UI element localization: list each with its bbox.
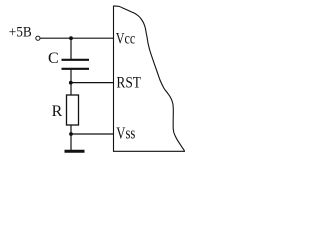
- terminal circle (+5B input): [36, 36, 40, 40]
- wire resistor bottom to ground: [70, 125, 72, 151]
- node junction on RST line: [69, 81, 73, 85]
- ground symbol: [65, 150, 85, 153]
- svg-text:+5B: +5B: [9, 25, 32, 41]
- svg-text:Vcc: Vcc: [116, 30, 136, 47]
- capacitor C bottom plate: [62, 68, 90, 70]
- node junction at top of capacitor branch: [69, 36, 73, 40]
- wire capacitor to RST junction and resistor: [70, 69, 72, 95]
- svg-text:C: C: [48, 50, 59, 67]
- capacitor C top plate: [62, 59, 90, 61]
- wire junction to Vss pin: [71, 133, 114, 135]
- wire junction to RST pin: [71, 82, 114, 84]
- IC U1 outline (torn-edge body): [114, 6, 185, 151]
- svg-text:Vss: Vss: [116, 124, 135, 143]
- resistor R body: [67, 95, 79, 125]
- wire +5B to Vcc pin: [40, 37, 113, 39]
- node junction on Vss line: [69, 132, 73, 136]
- svg-text:R: R: [52, 103, 63, 120]
- svg-text:RST: RST: [116, 74, 141, 91]
- wire junction down to capacitor: [70, 38, 72, 59]
